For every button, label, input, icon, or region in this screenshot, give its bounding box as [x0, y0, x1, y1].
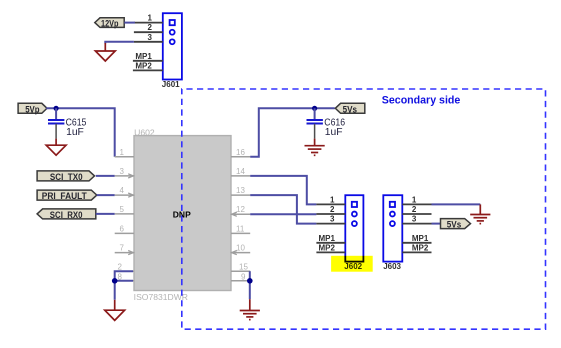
svg-text:1: 1 — [120, 148, 125, 157]
wire PRI_FAULT to U602 pin 4 — [97, 194, 115, 196]
svg-text:MP2: MP2 — [135, 61, 152, 70]
svg-text:12Vp: 12Vp — [101, 19, 119, 30]
U602 pin 11 stub — [231, 232, 250, 234]
svg-text:1: 1 — [148, 14, 153, 23]
ground (primary) at J601 pin 3 — [95, 43, 115, 61]
J602 pin 1 stub — [316, 203, 345, 205]
U602 pin 12 input arrow — [232, 212, 237, 216]
svg-text:5: 5 — [120, 205, 125, 214]
J603 pin MP1 stub — [402, 242, 431, 244]
wire U602 pin 2 / pin 8 to ground — [115, 271, 133, 300]
power flag 5Vp — [18, 103, 47, 115]
J601 pin 2 stub — [134, 31, 163, 33]
net flag SCI_TX0 — [37, 171, 94, 183]
junction at C616 — [312, 106, 317, 111]
U602 pin 8 stub — [115, 280, 134, 282]
net flag PRI_FAULT — [37, 190, 97, 202]
wire U602 pin 13 to J602 pin 3 — [250, 195, 316, 224]
op-amp U602 isolator body — [134, 136, 231, 291]
J601 pin MP1 stub — [133, 60, 163, 62]
svg-text:4: 4 — [120, 186, 125, 195]
U602 pin 13 stub — [231, 194, 250, 196]
svg-text:2: 2 — [148, 23, 153, 32]
wire U602 pin 15 / pin 9 to ground — [249, 271, 251, 299]
svg-text:2: 2 — [412, 205, 417, 214]
svg-text:1: 1 — [330, 195, 335, 204]
connector J603 — [383, 195, 402, 261]
junction at 5Vp / C615 — [54, 106, 59, 111]
wire pin8 horizontal — [115, 280, 133, 282]
svg-text:ISO7831DWR: ISO7831DWR — [134, 293, 189, 302]
capacitor C616 — [307, 108, 323, 138]
svg-text:MP2: MP2 — [412, 243, 429, 252]
U602 pin 5 stub — [115, 213, 134, 215]
U602 pin 10 input arrow — [232, 251, 237, 255]
svg-text:7: 7 — [120, 244, 125, 253]
svg-text:SCI_RX0: SCI_RX0 — [50, 210, 83, 221]
svg-text:DNP: DNP — [173, 210, 191, 220]
U602 pin 3 stub — [115, 175, 134, 177]
U602 pin 10 stub — [231, 252, 250, 254]
svg-text:6: 6 — [120, 224, 125, 233]
svg-text:12: 12 — [236, 205, 245, 214]
wire U602 pin 16 to 5Vs rail — [250, 108, 335, 157]
wire SCI_TX0 to U602 pin 3 — [96, 175, 115, 177]
U602 pin 12 stub — [231, 213, 250, 215]
svg-text:5Vs: 5Vs — [343, 104, 357, 115]
wire U602 pin 12 to J602 pin 2 — [250, 213, 316, 215]
ground (secondary) below C616 — [305, 139, 325, 156]
wire 12Vp to J601 pin 1 — [124, 22, 135, 24]
ground (secondary) at J603 pin 1 — [470, 204, 490, 223]
svg-text:3: 3 — [330, 215, 335, 224]
svg-text:5Vs: 5Vs — [447, 220, 461, 231]
J603 pin 1 stub — [402, 203, 431, 205]
svg-text:14: 14 — [236, 167, 245, 176]
J602 pin MP1 stub — [316, 242, 345, 244]
dashed isolation box "Secondary side" — [182, 89, 546, 329]
net flag SCI_RX0 — [37, 209, 96, 221]
power flag 5Vs at J603 — [441, 219, 471, 231]
svg-text:PRI_FAULT: PRI_FAULT — [42, 191, 87, 202]
J601 pin 3 stub — [134, 41, 163, 43]
svg-text:MP2: MP2 — [319, 243, 336, 252]
svg-text:10: 10 — [236, 244, 245, 253]
wire J603 pin 1 to ground — [432, 203, 481, 205]
connector J602 — [345, 195, 363, 261]
wire J601 pin 3 to ground — [105, 42, 134, 44]
U602 pin 15 stub — [231, 270, 250, 272]
svg-text:15: 15 — [239, 263, 248, 272]
svg-text:1uF: 1uF — [66, 127, 84, 138]
J603 pin 2 stub — [402, 213, 431, 215]
svg-text:MP1: MP1 — [412, 234, 429, 243]
svg-text:11: 11 — [236, 224, 245, 233]
U602 pin 7 stub — [115, 252, 134, 254]
U602 pin 14 stub — [231, 175, 250, 177]
J601 pin MP2 stub — [133, 69, 163, 71]
ground (primary) below C615 — [46, 139, 66, 156]
svg-text:1uF: 1uF — [325, 127, 343, 138]
svg-text:3: 3 — [148, 33, 153, 42]
J601 pin 1 stub — [134, 22, 163, 24]
power flag 12Vp — [95, 18, 124, 30]
power flag 5Vs at C616 — [335, 103, 365, 115]
U602 pin 16 stub — [231, 156, 250, 158]
wire U602 pin 14 to J602 pin 1 — [250, 176, 316, 205]
J602 pin 3 stub — [316, 223, 345, 225]
ground (primary) below U602 pin 8 — [105, 300, 125, 321]
U602 pin 9 stub — [231, 280, 250, 282]
connector J601 — [163, 13, 182, 79]
svg-text:5Vp: 5Vp — [25, 104, 39, 115]
U602 pin 3 input arrow — [128, 174, 133, 178]
svg-text:Secondary side: Secondary side — [382, 95, 461, 107]
svg-text:MP1: MP1 — [319, 234, 336, 243]
svg-text:U602: U602 — [134, 128, 155, 137]
J603 pin MP2 stub — [402, 251, 431, 253]
junction at U602 pin 8 — [112, 278, 118, 284]
svg-text:J603: J603 — [383, 262, 401, 271]
J602 pin MP2 stub — [316, 251, 345, 253]
U602 pin 7 input arrow — [128, 251, 133, 255]
U602 pin 4 input arrow — [128, 193, 133, 197]
capacitor C615 — [48, 108, 64, 138]
junction at U602 pin 9 — [247, 278, 253, 284]
svg-text:J601: J601 — [162, 80, 180, 89]
ground (secondary) below U602 pin 9 — [240, 299, 260, 319]
svg-text:MP1: MP1 — [135, 52, 152, 61]
U602 pin 2 stub — [115, 270, 134, 272]
U602 pin 4 stub — [115, 194, 134, 196]
svg-text:3: 3 — [412, 215, 417, 224]
svg-text:13: 13 — [236, 186, 245, 195]
svg-text:3: 3 — [120, 167, 125, 176]
wire 5Vp to U602 pin 1 — [46, 108, 115, 157]
svg-text:9: 9 — [241, 272, 246, 281]
wire SCI_RX0 to U602 pin 5 — [96, 213, 115, 215]
svg-text:SCI_TX0: SCI_TX0 — [50, 172, 83, 183]
svg-text:1: 1 — [412, 195, 417, 204]
yellow highlight on J602 — [331, 256, 373, 272]
J602 pin 2 stub — [316, 213, 345, 215]
U602 pin 6 stub — [115, 232, 134, 234]
U602 pin 1 stub — [115, 156, 134, 158]
J603 pin 3 stub — [402, 223, 431, 225]
svg-text:2: 2 — [330, 205, 335, 214]
svg-text:16: 16 — [236, 148, 245, 157]
wire J603 pin 3 to 5Vs flag — [432, 223, 441, 225]
